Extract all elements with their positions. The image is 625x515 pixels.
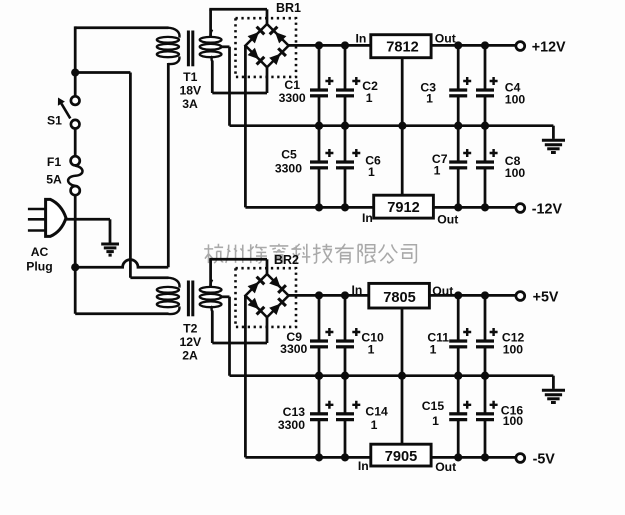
junction [481, 122, 489, 130]
svg-text:7905: 7905 [385, 449, 417, 465]
wire [75, 26, 168, 29]
wire [129, 73, 132, 278]
svg-text:AC: AC [31, 245, 49, 259]
bridge rectifier BR2 [236, 253, 300, 327]
regulator 7912 [362, 195, 458, 226]
capacitor C15 (1) [422, 376, 471, 458]
svg-text:Out: Out [435, 32, 456, 46]
junction [454, 453, 462, 461]
wire [211, 311, 214, 344]
ground (output common) [542, 140, 565, 152]
svg-text:-12V: -12V [532, 202, 563, 218]
svg-text:Out: Out [437, 212, 458, 226]
junction [341, 122, 349, 130]
junction [481, 41, 489, 49]
capacitor C1 (3300) [279, 45, 334, 125]
junction [398, 372, 406, 380]
transformer T1 18V 3A [157, 28, 222, 111]
wire [266, 259, 269, 274]
junction [481, 453, 489, 461]
svg-text:Plug: Plug [26, 259, 52, 273]
wire (common rail) [230, 374, 554, 377]
AC plug [26, 199, 66, 273]
terminal +12V [516, 40, 566, 56]
junction [341, 372, 349, 380]
junction [315, 203, 323, 211]
junction [481, 372, 489, 380]
wire (negative rail) [245, 456, 516, 459]
7805 ground pin [401, 308, 404, 376]
capacitor C10 (1) [336, 295, 384, 375]
ground (output common) [542, 390, 565, 402]
wire (positive rail) [289, 294, 517, 297]
svg-text:C5: C5 [281, 147, 297, 161]
svg-text:C15: C15 [422, 399, 445, 413]
wire [209, 259, 212, 287]
svg-text:12V: 12V [179, 335, 202, 349]
svg-text:3A: 3A [182, 97, 198, 111]
wire (negative leg) [244, 296, 247, 458]
capacitor C16 (100) [476, 376, 523, 458]
junction [481, 372, 489, 380]
capacitor C14 (1) [336, 376, 388, 458]
wire [212, 92, 267, 95]
junction [454, 372, 462, 380]
wire [212, 342, 267, 345]
wire (hop over) [75, 260, 168, 268]
regulator 7812 [355, 32, 455, 58]
junction [454, 41, 462, 49]
svg-text:S1: S1 [47, 113, 62, 127]
junction [341, 291, 349, 299]
svg-text:+5V: +5V [533, 290, 559, 306]
svg-text:1: 1 [368, 165, 375, 179]
junction [315, 372, 323, 380]
capacitor C5 (3300) [275, 126, 334, 208]
junction [341, 453, 349, 461]
svg-text:In: In [352, 283, 363, 297]
wire (common rail) [230, 124, 554, 127]
svg-text:+12V: +12V [532, 40, 566, 56]
svg-text:T1: T1 [183, 70, 197, 84]
junction [341, 122, 349, 130]
regulator 7805 [352, 283, 454, 308]
svg-text:1: 1 [426, 91, 433, 105]
svg-text:1: 1 [430, 343, 437, 357]
fuse F1 5A [46, 155, 82, 195]
svg-text:3300: 3300 [279, 91, 306, 105]
svg-text:1: 1 [371, 418, 378, 432]
capacitor C9 (3300) [280, 295, 333, 375]
junction [341, 203, 349, 211]
junction [454, 203, 462, 211]
svg-text:Out: Out [432, 284, 453, 298]
wire [65, 218, 111, 221]
junction [315, 291, 323, 299]
capacitor C4 (100) [476, 45, 525, 125]
wire [552, 376, 555, 389]
wire (negative leg) [244, 46, 247, 208]
wire (center tap) [220, 295, 230, 298]
svg-text:100: 100 [505, 92, 526, 106]
svg-text:100: 100 [505, 166, 526, 180]
svg-text:5A: 5A [46, 173, 62, 187]
switch S1 [47, 96, 79, 128]
wire [167, 63, 170, 267]
svg-text:C14: C14 [365, 405, 388, 419]
svg-text:1: 1 [434, 164, 441, 178]
svg-text:In: In [362, 211, 373, 225]
wire [74, 195, 77, 219]
node junction (neutral feed) [71, 263, 79, 271]
svg-text:1: 1 [368, 343, 375, 357]
capacitor C13 (3300) [278, 376, 334, 458]
svg-text:In: In [355, 32, 366, 46]
wire [74, 129, 77, 156]
capacitor C11 (1) [427, 295, 471, 375]
junction [454, 372, 462, 380]
wire [209, 8, 267, 11]
junction [454, 291, 462, 299]
svg-text:3300: 3300 [280, 342, 307, 356]
junction [454, 122, 462, 130]
capacitor C12 (100) [476, 295, 524, 375]
svg-text:3300: 3300 [278, 418, 305, 432]
junction [315, 41, 323, 49]
wire [266, 67, 269, 93]
svg-text:7812: 7812 [386, 40, 418, 56]
transformer T2 12V 2A [157, 278, 222, 363]
bridge rectifier BR1 [236, 1, 302, 77]
7812 ground pin [401, 58, 404, 126]
7912 ground pin [401, 126, 404, 196]
junction [481, 291, 489, 299]
capacitor C2 (1) [336, 45, 378, 125]
wire [228, 297, 231, 376]
terminal +5V [516, 290, 559, 306]
junction [481, 203, 489, 211]
capacitor C6 (1) [336, 126, 381, 208]
svg-text:T2: T2 [183, 321, 197, 335]
svg-text:C1: C1 [284, 78, 300, 92]
wire [266, 317, 269, 343]
junction [341, 372, 349, 380]
svg-text:F1: F1 [47, 155, 61, 169]
junction [315, 372, 323, 380]
ground (AC safety earth) [101, 244, 119, 255]
wire [266, 9, 269, 24]
svg-text:C13: C13 [283, 405, 306, 419]
wire [75, 71, 130, 74]
terminal -5V [516, 452, 555, 468]
junction [481, 122, 489, 130]
wire (negative rail) [245, 206, 516, 209]
junction [315, 453, 323, 461]
junction [315, 122, 323, 130]
wire [75, 312, 168, 315]
wire [228, 47, 231, 126]
wire [211, 61, 214, 94]
svg-text:-5V: -5V [533, 452, 556, 468]
wire (center tap) [220, 45, 230, 48]
junction [315, 122, 323, 130]
terminal -12V [516, 202, 563, 218]
wire [74, 26, 77, 96]
wire [209, 9, 212, 37]
svg-text:100: 100 [503, 414, 524, 428]
capacitor C7 (1) [432, 126, 471, 208]
svg-text:BR2: BR2 [274, 253, 299, 267]
wire [552, 126, 555, 139]
node junction (hot feed) [71, 68, 79, 76]
7905 ground pin [401, 376, 404, 445]
wire [74, 219, 77, 313]
wire [130, 276, 168, 279]
svg-text:18V: 18V [179, 83, 202, 97]
svg-text:7912: 7912 [387, 200, 419, 216]
regulator 7905 [358, 444, 456, 474]
junction [454, 122, 462, 130]
junction [398, 122, 406, 130]
wire [109, 219, 112, 242]
svg-text:100: 100 [503, 343, 524, 357]
capacitor C8 (100) [476, 126, 525, 208]
svg-text:2A: 2A [182, 349, 198, 363]
watermark text (behind schematic) [204, 244, 416, 263]
svg-text:3300: 3300 [275, 161, 302, 175]
wire [209, 258, 267, 261]
svg-text:In: In [358, 459, 369, 473]
wire (positive rail) [289, 44, 517, 47]
svg-text:1: 1 [366, 91, 373, 105]
junction [341, 41, 349, 49]
capacitor C3 (1) [420, 45, 471, 125]
svg-text:1: 1 [432, 414, 439, 428]
svg-text:Out: Out [435, 460, 456, 474]
svg-text:7805: 7805 [383, 290, 415, 306]
svg-text:BR1: BR1 [276, 1, 301, 15]
